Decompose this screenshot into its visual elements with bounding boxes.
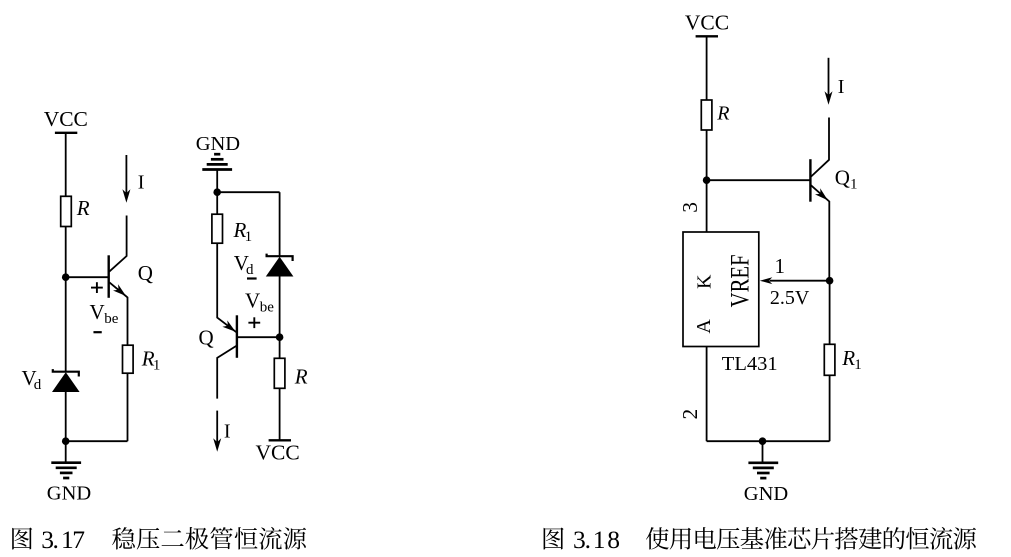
resistor R (middle) xyxy=(279,337,281,358)
svg-text:VCC: VCC xyxy=(255,441,299,465)
node top junction (middle) xyxy=(213,188,221,196)
wire to zener (middle) xyxy=(279,192,281,256)
svg-text:1: 1 xyxy=(850,177,858,193)
ground GND (left) xyxy=(65,441,67,462)
svg-text:1: 1 xyxy=(775,254,786,278)
svg-text:R: R xyxy=(841,346,855,370)
svg-text:1: 1 xyxy=(854,357,862,373)
svg-text:R: R xyxy=(716,102,729,124)
wire zener to bottom node (left) xyxy=(65,392,67,441)
resistor R (left) xyxy=(61,196,72,226)
IC U1 TL431 box xyxy=(683,232,759,347)
svg-text:be: be xyxy=(104,311,119,327)
zener diode Vd (middle) xyxy=(267,254,293,261)
wire base Q1 (right) xyxy=(707,179,810,181)
label + (middle Vbe) xyxy=(248,322,260,324)
node ground junction (right) xyxy=(759,437,767,445)
svg-text:Q: Q xyxy=(835,166,850,190)
svg-text:VREF: VREF xyxy=(725,254,755,307)
wire R1 to bottom (left) xyxy=(127,373,129,441)
transistor Q1 (right, NPN) xyxy=(809,159,811,202)
svg-text:V: V xyxy=(245,288,260,312)
current arrow I (right) xyxy=(828,58,830,96)
svg-text:A: A xyxy=(693,319,715,334)
current arrow I (left) xyxy=(125,155,127,194)
wire TL431 anode to bottom (right) xyxy=(706,347,708,442)
node bottom junction (left) xyxy=(62,437,70,445)
svg-text:GND: GND xyxy=(47,483,91,505)
svg-text:Q: Q xyxy=(199,326,214,350)
svg-text:R: R xyxy=(294,365,308,389)
svg-text:GND: GND xyxy=(744,483,788,505)
svg-text:3.17: 3.17 xyxy=(41,525,85,554)
transistor Q (middle, PNP mirrored) xyxy=(236,315,238,358)
wire R to node 3 (right) xyxy=(706,130,708,180)
svg-text:K: K xyxy=(693,274,715,289)
wire R1 to bottom (right) xyxy=(829,375,831,441)
zener diode Vd (left) xyxy=(65,277,67,371)
node junction pin3 (right) xyxy=(703,176,711,184)
resistor R1 (middle) xyxy=(216,192,218,214)
svg-text:R: R xyxy=(76,196,90,220)
transistor Q (left, NPN) xyxy=(107,255,109,297)
wire zener to base node (middle) xyxy=(279,277,281,338)
wire R to VCC (middle) xyxy=(279,388,281,440)
svg-text:V: V xyxy=(90,300,105,324)
wire node to TL431 cathode (right) xyxy=(706,180,708,232)
node junction VREF (right) xyxy=(826,277,834,285)
svg-text:VCC: VCC xyxy=(44,107,88,131)
svg-text:I: I xyxy=(224,421,231,443)
wire R to base node (left) xyxy=(65,227,67,278)
svg-text:3: 3 xyxy=(678,202,702,213)
svg-text:1: 1 xyxy=(153,357,161,373)
svg-text:I: I xyxy=(838,76,845,98)
svg-text:2: 2 xyxy=(678,409,702,420)
ground GND (right) xyxy=(762,441,764,462)
current arrow I (middle) xyxy=(216,411,218,443)
wire top horizontal (middle) xyxy=(217,191,279,193)
svg-text:d: d xyxy=(34,377,42,393)
wire bottom horizontal (right) xyxy=(707,440,830,442)
svg-text:TL431: TL431 xyxy=(722,353,778,375)
resistor R1 (left) xyxy=(123,345,134,373)
svg-text:Q: Q xyxy=(138,261,153,285)
svg-text:3.18: 3.18 xyxy=(573,525,620,554)
svg-text:GND: GND xyxy=(196,133,240,155)
wire VCC to R (right) xyxy=(706,37,708,100)
label minus (middle Vd) xyxy=(247,277,257,279)
label + (left Vbe) xyxy=(91,287,103,289)
node base junction (left) xyxy=(62,273,70,281)
wire pin1 VREF arrow xyxy=(770,280,830,282)
caption figure 3.18 xyxy=(544,525,976,554)
resistor R (right) xyxy=(701,100,712,130)
svg-text:be: be xyxy=(260,299,275,315)
svg-text:I: I xyxy=(138,172,145,194)
power VCC (middle) xyxy=(269,439,291,441)
label minus (left Vbe) xyxy=(93,331,101,333)
resistor R1 (right) xyxy=(824,344,835,375)
wire bottom horizontal (left) xyxy=(66,440,128,442)
svg-text:VCC: VCC xyxy=(685,11,729,35)
node base junction (middle) xyxy=(276,333,284,341)
wire base (left) xyxy=(66,276,108,278)
wire VCC to R (left) xyxy=(65,134,67,196)
wire base (middle) xyxy=(238,336,280,338)
wire emitter to R1 (right) xyxy=(829,281,831,345)
svg-text:d: d xyxy=(246,262,254,278)
svg-text:2.5V: 2.5V xyxy=(770,287,810,309)
svg-text:1: 1 xyxy=(245,229,253,245)
caption figure 3.17 xyxy=(12,525,306,554)
